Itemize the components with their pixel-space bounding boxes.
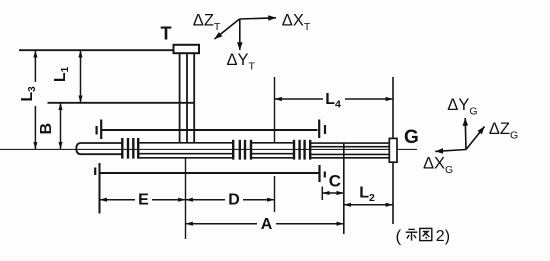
shaft axis line (0, 148, 417, 150)
upper rail right tall tick (318, 120, 320, 139)
top reference line (19, 49, 174, 51)
shaft ring group 1 (122, 138, 138, 159)
axis arrow Z_G (466, 127, 485, 150)
shaft ring group 3 (294, 140, 310, 160)
E-D boundary extension line (185, 158, 187, 240)
dimension L1 (52, 50, 81, 103)
svg-text:B: B (38, 123, 55, 135)
dimension B (38, 103, 61, 149)
glyph shi (406, 229, 418, 240)
axis arrow X_T (240, 18, 277, 19)
upper rail left tall tick (100, 120, 102, 140)
shaft left stub (76, 143, 122, 154)
second reference line (48, 102, 195, 104)
axis arrow Z_T (215, 19, 240, 39)
svg-text:T: T (161, 24, 172, 44)
shaft mid section 1 (138, 143, 233, 158)
axis arrow X_G (435, 150, 466, 152)
shaft mid section 2 (251, 143, 294, 158)
svg-text:D: D (228, 192, 240, 209)
lower rail left short tick (94, 168, 96, 176)
C left boundary tick (321, 187, 323, 201)
dimension A (186, 215, 344, 233)
glyph tu (420, 228, 432, 240)
upper rail right short tick (324, 125, 326, 134)
svg-text:(: ( (396, 227, 402, 246)
sensor T cap (174, 45, 200, 53)
dimension D (186, 191, 275, 209)
svg-text:2): 2) (436, 228, 450, 245)
D right extension line (274, 176, 276, 212)
dimension C (322, 192, 344, 194)
coupling flange G (389, 138, 397, 162)
dimension L4 (275, 89, 394, 111)
sensor T column (180, 53, 195, 142)
lower rail left tall tick / E extension line (99, 163, 101, 214)
dimension E (100, 191, 186, 209)
lower rail right tall tick (318, 165, 320, 182)
lower rail (100, 172, 320, 174)
axis arrow Y_G (464, 118, 467, 150)
svg-text:E: E (138, 192, 149, 209)
G coordinate triad (435, 118, 484, 151)
lower rail right short tick (324, 172, 326, 178)
L4 left extension line (274, 77, 276, 143)
T coordinate triad origin (215, 18, 277, 50)
A right / C extension line (343, 143, 345, 235)
shaft ring group 2 (233, 140, 251, 160)
svg-text:A: A (261, 216, 273, 233)
caption ( shi tu 2 ) (396, 227, 451, 246)
shaft right section (310, 143, 389, 158)
upper rail (101, 129, 317, 131)
axis arrow Y_T (239, 19, 241, 50)
svg-text:G: G (404, 127, 419, 148)
upper rail left short tick (95, 126, 97, 135)
svg-text:C: C (329, 171, 341, 190)
dimension L2 (344, 185, 393, 205)
dimension L3 (19, 50, 40, 149)
G plane vertical line (392, 77, 394, 224)
